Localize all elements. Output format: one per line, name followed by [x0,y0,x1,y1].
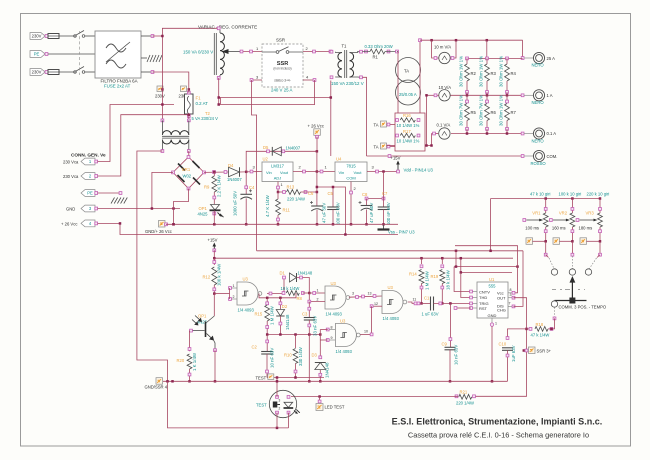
svg-text:C7: C7 [382,191,388,196]
resistor R5 [466,95,468,101]
svg-text:U4: U4 [336,157,342,162]
svg-text:25/0.05 A: 25/0.05 A [399,92,417,97]
svg-text:4N25: 4N25 [198,211,209,216]
svg-text:LED TEST: LED TEST [325,405,345,410]
jack 1A [533,90,544,101]
resistor R8 [282,292,285,295]
jack COM [533,150,544,161]
svg-text:1N4148: 1N4148 [298,271,313,276]
svg-text:R11: R11 [283,208,291,213]
svg-text:W02: W02 [183,174,192,179]
TEST node line [267,377,324,379]
svg-text:C1: C1 [424,296,430,301]
TEST button pins [276,396,279,399]
svg-text:TEST: TEST [256,402,267,407]
wire filter top to variac and T2 [153,28,219,36]
svg-text:+ 26 Vcc: + 26 Vcc [61,222,77,227]
svg-text:180 ms: 180 ms [579,225,593,230]
svg-text:ROSSO: ROSSO [531,161,547,166]
svg-text:LM317: LM317 [271,163,284,168]
svg-text:SSR: SSR [276,38,285,43]
wire PE2 [98,192,121,194]
svg-text:statico 3+4-: statico 3+4- [274,79,291,83]
jack 25A [533,52,544,63]
svg-text:E.S.I. Elettronica, Strumentaz: E.S.I. Elettronica, Strumentazione, Impi… [392,417,603,427]
resistor R18 [527,328,533,330]
resistor bank top row feed [486,40,488,58]
svg-text:U3: U3 [340,318,346,323]
earth rake symbol [141,57,147,59]
wire variac bottom return to T1 primary [218,78,220,105]
svg-text:GND/SSR 4: GND/SSR 4 [145,385,168,390]
svg-text:R16: R16 [403,113,411,118]
capacitor C7 ceramic [383,172,385,208]
svg-text:R6: R6 [491,110,497,115]
svg-text:2.2 K 1/4W: 2.2 K 1/4W [217,174,222,197]
svg-text:R9: R9 [204,185,210,190]
svg-text:TA: TA [404,69,409,74]
svg-text:VR1: VR1 [532,210,541,215]
capacitor C10 [508,329,527,338]
U4 out pin3 [367,171,398,173]
svg-text:U3: U3 [388,285,394,290]
svg-text:NERO: NERO [532,63,545,68]
svg-text:Vss - PIN7 U3: Vss - PIN7 U3 [388,230,415,235]
svg-text:9: 9 [331,336,333,340]
fuse F bottom [48,71,76,73]
wire C1 to TRIG [434,302,472,304]
wire rail down to TEST row [168,381,289,428]
resistor R1 [365,50,368,53]
svg-text:ADJ: ADJ [274,176,282,181]
SSR pin2 wire to T1 [303,51,331,53]
svg-text:R18: R18 [536,322,544,327]
node line 0.1A [451,133,523,135]
svg-text:TEST: TEST [256,375,267,380]
svg-text:100 k 10 giri: 100 k 10 giri [559,191,582,196]
resistor R14 [420,257,423,260]
resistor R7 [506,95,508,101]
capacitor C9 [445,346,456,348]
svg-text:NERO: NERO [532,139,545,144]
svg-text:R7: R7 [511,110,517,115]
svg-text:30 Ohm 1W 1%: 30 Ohm 1W 1% [499,95,504,126]
wires meters to burden block [426,95,428,145]
potentiometer VR1 [545,199,547,214]
svg-text:VARIAC - REG. CORRENTE: VARIAC - REG. CORRENTE [198,25,257,30]
svg-text:C9: C9 [442,341,448,346]
svg-text:(non incluso): (non incluso) [273,67,291,71]
U4 com pin2 down [350,182,352,225]
svg-text:CONN. GEN. Ve: CONN. GEN. Ve [71,153,106,158]
timer U1 555 [477,282,508,318]
svg-text:D5: D5 [263,145,269,150]
wire conn1 to mains net [98,105,175,162]
svg-text:230V: 230V [32,70,42,75]
svg-text:COM: COM [346,176,355,181]
svg-text:R4: R4 [511,71,517,76]
wire T2 sec right to bridge [188,151,190,157]
wire T2 sec left to GND bottom run [137,151,168,381]
U2 adj pin1 down [277,182,279,193]
resistor R9 [213,171,216,174]
diode D5 bypass [246,151,317,172]
GND rail horizontal [166,223,398,225]
capacitor C6 electrolytic [316,172,318,207]
resistor R17 [396,134,399,137]
svg-text:10 m V/A: 10 m V/A [434,45,451,50]
resistor R20 [189,331,191,352]
COM line [367,155,523,157]
GND rail bottom [163,380,508,382]
svg-text:R1: R1 [373,55,379,60]
wire TA output top line [420,39,523,41]
svg-text:FUSE 2x2 AT: FUSE 2x2 AT [104,84,131,89]
svg-text:5 VA 230/24 V: 5 VA 230/24 V [192,116,219,121]
NAND gate U3D [335,324,356,347]
svg-text:R17: R17 [403,129,411,134]
svg-text:C8: C8 [362,192,368,197]
svg-text:Vcc: Vcc [497,290,504,295]
svg-text:30 Ohm 1W 1%: 30 Ohm 1W 1% [499,56,504,87]
svg-text:D2: D2 [282,304,288,309]
svg-text:1N4148: 1N4148 [325,362,330,378]
svg-text:0.2 AT: 0.2 AT [196,101,209,106]
gate B lower input tie [309,293,325,302]
svg-text:Cassetta prova relé C.E.I. 0-1: Cassetta prova relé C.E.I. 0-16 - Schema… [408,431,589,440]
switch gang dashed link [79,31,81,75]
potentiometer VR2 [571,199,573,214]
svg-text:3: 3 [352,292,354,296]
svg-text:1N4148: 1N4148 [285,314,290,330]
SSR 3+ net flag [513,305,515,307]
svg-text:CHG: CHG [497,307,506,312]
svg-text:COM.: COM. [547,154,558,159]
net flag VR3 bottom [580,238,587,245]
svg-text:C5: C5 [328,191,334,196]
svg-text:NERO: NERO [532,100,545,105]
svg-text:R15: R15 [255,312,263,317]
SSR pin3 wire [252,79,263,81]
svg-text:220 k 10 giri: 220 k 10 giri [587,191,610,196]
svg-text:3: 3 [510,293,512,297]
svg-text:2: 2 [317,298,319,302]
svg-text:3: 3 [279,399,281,403]
wire conn2 to mains net [98,115,189,176]
wire CNTV feed [454,267,471,292]
capacitor C2 [266,335,268,352]
fuse F1 [185,94,194,114]
selector contacts [551,269,557,275]
svg-text:T1: T1 [342,44,348,49]
variac wiper arrow [226,51,240,53]
svg-text:30 Ohm 1W 1%: 30 Ohm 1W 1% [479,56,484,87]
svg-text:SSR 3+: SSR 3+ [537,349,552,354]
NAND gate U3C [382,291,403,314]
svg-text:1/4 4093: 1/4 4093 [336,349,353,354]
svg-text:33 nF 63V: 33 nF 63V [313,316,318,336]
svg-text:1/4 4093: 1/4 4093 [326,311,343,316]
resistor R13 [278,191,286,193]
flag GND+26Vcc [159,221,166,228]
svg-text:47 k 10 giri: 47 k 10 giri [530,191,551,196]
svg-text:U3: U3 [331,281,337,286]
svg-text:R19: R19 [431,274,439,279]
wire wiper to SSR pin1 [240,51,262,53]
wire R12 to gate A inputs [214,293,229,295]
svg-text:1: 1 [233,284,235,288]
svg-text:555: 555 [489,284,497,289]
svg-text:C10: C10 [499,341,507,346]
svg-text:10: 10 [364,330,368,334]
R16 R17 block loop [395,113,425,151]
svg-text:1N4007: 1N4007 [286,146,301,151]
svg-text:150 VA 230/12 V: 150 VA 230/12 V [331,81,364,86]
meter M2 10V/A [439,90,450,101]
svg-text:100 nF 63V: 100 nF 63V [386,202,391,225]
wire conn4 to +26V rail [98,223,399,234]
connector 230V bottom [30,69,45,76]
fuse F top [48,35,76,37]
net flag 230V (bottom) [181,86,187,92]
svg-text:+15V: +15V [391,156,401,161]
wire gate D out up to gate C in [371,306,373,334]
meter M1 10mV/A [432,40,439,58]
wire rail to 555 Vcc line [454,266,517,268]
diode D2 [279,298,281,309]
TEST pushbutton circle [269,390,296,417]
svg-text:BR1: BR1 [182,167,191,172]
wire pin2 node to C5 loop [317,187,346,235]
rail Vdd lower [214,250,513,258]
svg-text:C2: C2 [252,345,258,350]
resistor R6 [486,95,488,101]
svg-text:C4: C4 [249,185,255,190]
ground symbol Vss [383,224,385,229]
wire mains line corner down to COM [330,98,332,157]
jack 0.1A [533,128,544,139]
net flag VR2 bottom [553,238,560,245]
node line 1A [450,94,522,96]
SSR box [262,44,303,87]
wire gate B out to gate C [349,296,382,297]
svg-text:160 ms: 160 ms [552,225,566,230]
svg-text:10 1/4W 1%: 10 1/4W 1% [397,139,420,144]
svg-text:TA: TA [374,145,379,150]
svg-text:1 M 1/4W: 1 M 1/4W [270,305,275,325]
wire BR1 out to D4 [204,171,229,173]
diode D1 bypass [283,278,285,294]
mains filter FILTRO FN2BA [95,31,141,78]
opto base wire [191,330,205,332]
svg-text:0.1 V/A: 0.1 V/A [437,123,451,128]
button symbol [273,402,278,408]
svg-text:7: 7 [509,302,511,306]
selector wiper arrow [570,278,574,301]
wire to 25A jack [522,40,524,58]
gate C output wire [408,302,420,303]
LED inside TEST [284,402,293,407]
svg-text:R10: R10 [284,353,292,358]
svg-text:47 uF 50V: 47 uF 50V [369,203,374,223]
wire DIS to rail [514,251,524,307]
svg-text:30 Ohm 1W 1%: 30 Ohm 1W 1% [459,56,464,87]
diode D4 [229,167,240,177]
svg-text:4.7 K 1/4W: 4.7 K 1/4W [265,194,270,217]
svg-text:CNTV: CNTV [479,289,490,294]
resistor R2 [466,57,469,60]
svg-text:U2: U2 [263,157,269,162]
variac T coil [213,33,215,75]
svg-text:C6: C6 [308,191,314,196]
svg-text:150 VA 0/230 V: 150 VA 0/230 V [183,49,213,54]
resistor R12 [213,258,215,265]
meter M3 0.1V/A [439,128,450,139]
earth hatch symbol [111,198,115,204]
svg-text:+ 26 Vcc: + 26 Vcc [308,123,324,128]
resistor R16 [396,119,399,122]
wire BR1 bottom down [174,189,189,225]
svg-text:VR3: VR3 [586,210,595,215]
svg-text:30 Ohm 7W 1%: 30 Ohm 7W 1% [459,95,464,126]
svg-text:R2: R2 [471,71,477,76]
svg-text:R13: R13 [287,184,295,189]
svg-text:U1: U1 [489,277,495,282]
svg-text:OP1: OP1 [198,314,207,319]
wire gate A feed down to opto collector [213,294,215,316]
resistor R11 [277,192,279,199]
regulator U4 7815 [335,162,367,182]
+15V power arrow [397,163,399,172]
net flag 230V (top) [157,86,163,92]
capacitor C5 ceramic [332,187,334,207]
wire T1 sec bottom to COM line [363,77,367,156]
555 GND pin [491,318,493,323]
bridge rectifier BR1 [173,157,204,189]
svg-text:30 Ohm 7W 1%: 30 Ohm 7W 1% [479,95,484,126]
svg-text:2: 2 [279,407,281,411]
capacitor C3 [308,302,310,318]
LED TEST net flag [319,397,321,402]
svg-text:230 Vca: 230 Vca [63,160,79,165]
svg-text:0.1 A: 0.1 A [547,131,557,136]
svg-text:VR2: VR2 [559,210,568,215]
svg-text:Vout: Vout [280,170,289,175]
svg-text:THD: THD [479,295,487,300]
switch top [74,35,77,38]
SSR pin3 control wire down to rail [252,80,257,251]
svg-text:2: 2 [233,295,235,299]
+26V rail lower [119,222,122,225]
resistor R3 [486,57,489,60]
wire F1 to T2 [188,116,190,120]
capacitor C4 electrolytic [245,172,247,195]
svg-text:R20: R20 [177,358,185,363]
wire U2 out to U4 [317,171,335,173]
svg-text:8: 8 [510,288,512,292]
resistor R4 [506,57,509,60]
GND/SSR 4 net flag [156,378,163,385]
resistor R15 [266,298,268,305]
svg-text:10 nF 63V: 10 nF 63V [454,345,459,365]
555 left pins [471,291,477,293]
wire GND line [98,208,181,210]
wire PE to filter [48,53,95,55]
switch bottom [74,71,77,74]
svg-text:U3: U3 [243,277,249,282]
capacitor C8 electrolytic [367,198,384,200]
svg-text:D1: D1 [280,271,286,276]
svg-text:230V: 230V [155,94,165,99]
net flag VR1 bottom [526,238,533,245]
svg-text:10 V/A: 10 V/A [439,85,452,90]
svg-text:GND/+ 26 Vcc: GND/+ 26 Vcc [145,229,172,234]
svg-text:220 1/4W: 220 1/4W [287,197,305,202]
svg-text:1: 1 [317,289,319,293]
capacitor C1 [420,302,431,304]
svg-text:GND: GND [488,313,497,318]
svg-text:25 A: 25 A [547,56,556,61]
wire line B THD [461,258,512,272]
svg-text:OUT: OUT [497,296,506,301]
svg-text:COMM. 3 POS. - TEMPO: COMM. 3 POS. - TEMPO [559,304,607,309]
svg-text:D4: D4 [228,163,234,168]
selector common contact [551,301,557,307]
svg-text:R5: R5 [471,110,477,115]
pots top line [491,198,600,200]
svg-text:1N4007: 1N4007 [227,177,242,182]
svg-text:0.33 Ohm 20W: 0.33 Ohm 20W [365,44,393,49]
svg-text:10 1/4W 1%: 10 1/4W 1% [397,123,420,128]
connector PE2 [81,190,95,197]
wire BR1 minus to GND line [152,172,173,208]
svg-text:11: 11 [413,298,417,302]
svg-text:330 1/4W: 330 1/4W [298,346,303,366]
connector 230V top [30,33,45,40]
svg-text:GND: GND [66,207,75,212]
svg-text:240 V 25 A: 240 V 25 A [271,88,293,93]
svg-text:PE: PE [34,52,40,57]
SSR pin4 wire down to mains line [221,80,315,105]
selector common bar [555,300,587,302]
svg-text:100 nF 63V: 100 nF 63V [336,202,341,225]
svg-text:1 uF 63V: 1 uF 63V [422,311,439,316]
svg-text:10 nF 63V: 10 nF 63V [270,348,275,368]
svg-text:47 k 1/4W: 47 k 1/4W [531,333,550,338]
rail SSR3 lower [257,250,523,252]
svg-text:8: 8 [331,325,333,329]
svg-text:OP1: OP1 [199,206,208,211]
gate D input tie [319,330,321,341]
svg-text:R21: R21 [460,389,468,394]
svg-text:230V: 230V [32,34,42,39]
svg-text:R8: R8 [297,296,303,301]
svg-text:7815: 7815 [346,163,356,168]
wire R21 left to TEST button [291,396,458,398]
potentiometer VR3 [599,199,601,214]
svg-text:1/4 4093: 1/4 4093 [383,316,400,321]
svg-text:13: 13 [368,292,372,296]
svg-text:Vin: Vin [339,170,345,175]
svg-text:10 k 1/4W: 10 k 1/4W [281,286,300,291]
svg-text:1 M 1/4W: 1 M 1/4W [425,270,430,290]
svg-text:+15V: +15V [208,238,218,243]
svg-text:1/4 4093: 1/4 4093 [238,308,255,313]
filter output pins [141,35,153,37]
wire common to R18 [554,307,556,316]
bottom tie R15 D2 to gate D [267,334,320,336]
svg-text:18 k 1/4W: 18 k 1/4W [446,269,451,290]
